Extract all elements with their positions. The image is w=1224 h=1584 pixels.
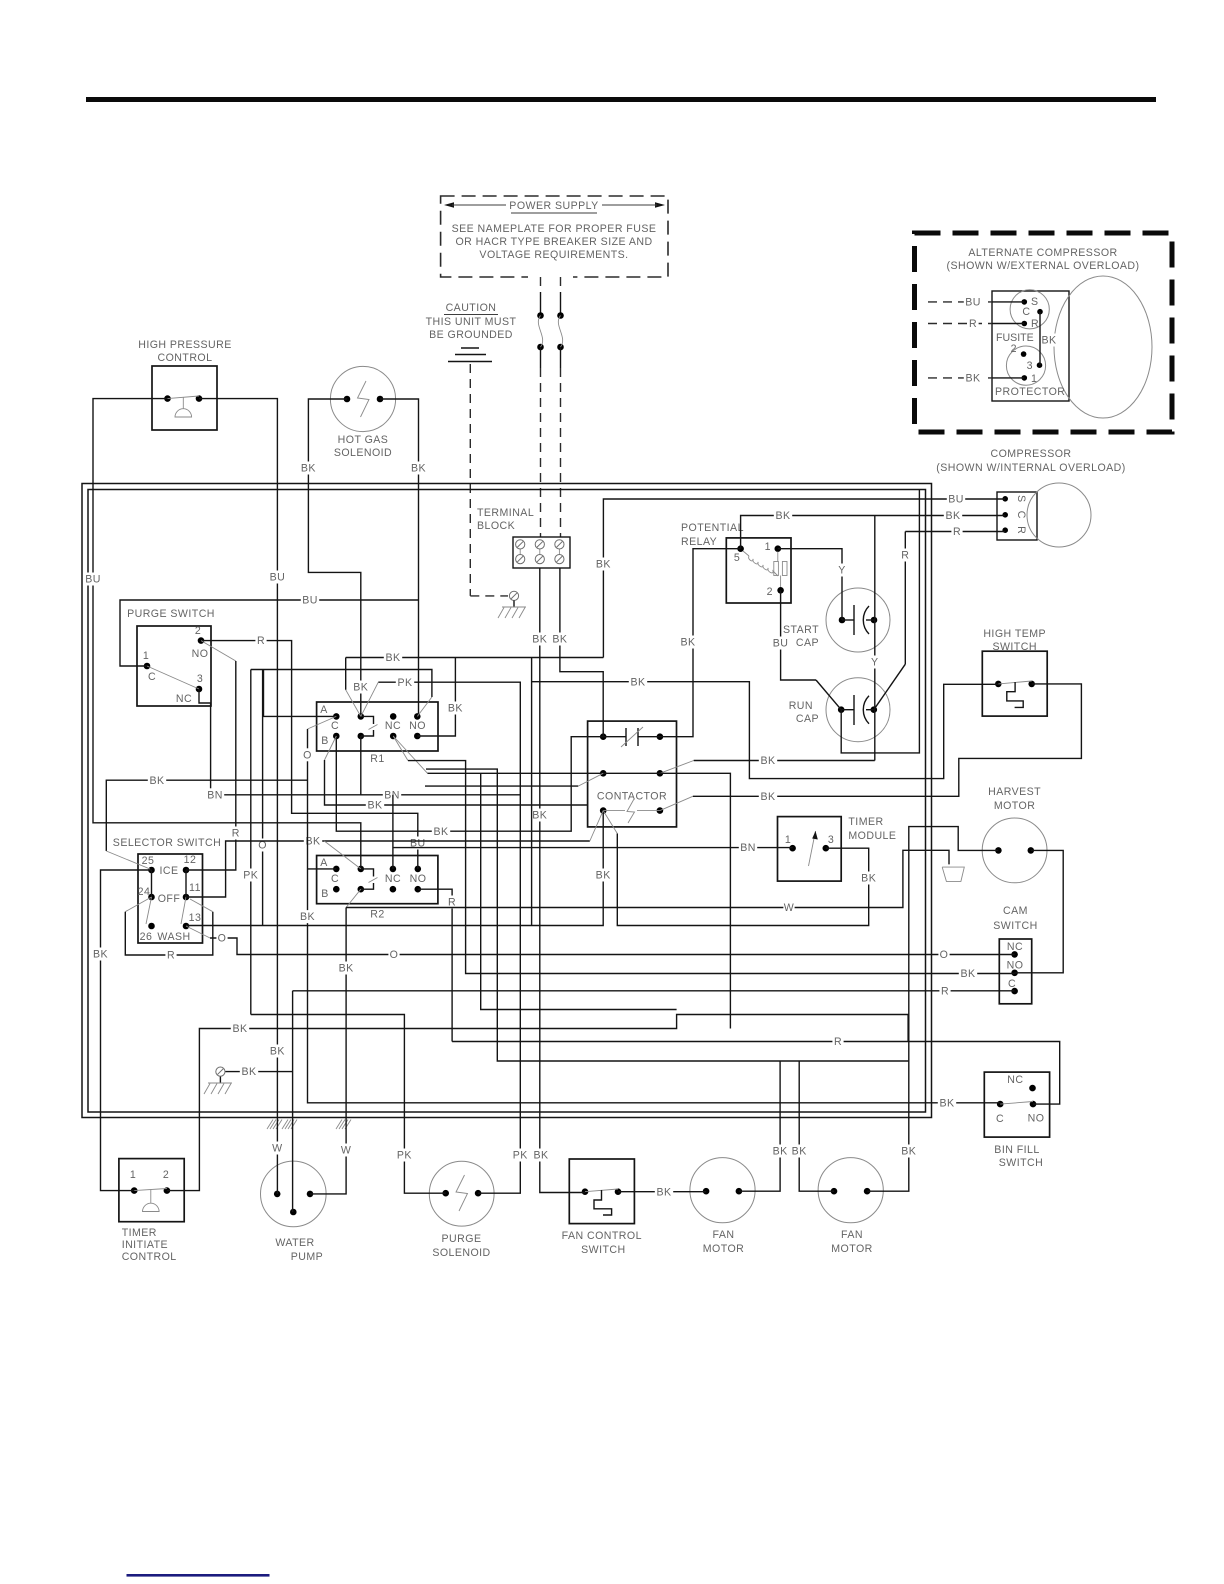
svg-text:BU: BU: [302, 595, 318, 607]
svg-text:THIS UNIT MUST: THIS UNIT MUST: [426, 316, 517, 328]
relay R2 box: [317, 856, 438, 904]
svg-text:RUN: RUN: [789, 700, 813, 712]
svg-text:BK: BK: [552, 634, 567, 646]
purge switch terminal 2 NO: [198, 637, 205, 644]
contactor coil row: [600, 807, 607, 814]
wire ground screw to water pump center: [216, 1067, 225, 1076]
svg-text:SEE NAMEPLATE FOR PROPER F: SEE NAMEPLATE FOR PROPER FUSE: [452, 223, 657, 235]
power supply lead L2 wire: [560, 277, 562, 292]
svg-text:BK: BK: [270, 1046, 285, 1058]
wire contactor line right to potential relay 5: [660, 549, 741, 737]
svg-text:SELECTOR SWITCH: SELECTOR SWITCH: [113, 837, 221, 849]
svg-text:MOTOR: MOTOR: [994, 800, 1036, 812]
svg-text:BK: BK: [433, 826, 448, 838]
svg-text:BK: BK: [533, 1150, 548, 1162]
svg-text:BK: BK: [93, 949, 108, 961]
svg-text:BK: BK: [232, 1023, 247, 1035]
water pump: [261, 1161, 327, 1227]
svg-text:CAUTION: CAUTION: [446, 302, 497, 314]
svg-text:R1: R1: [370, 753, 384, 765]
svg-text:BK: BK: [960, 968, 975, 980]
svg-text:BU: BU: [270, 572, 286, 584]
gap in power supply box bottom: [528, 270, 573, 283]
svg-text:SWITCH: SWITCH: [999, 1157, 1043, 1169]
svg-text:O: O: [940, 949, 949, 961]
svg-text:MOTOR: MOTOR: [703, 1243, 745, 1255]
svg-text:BK: BK: [939, 1097, 954, 1109]
selector switch box: [138, 854, 203, 943]
svg-text:2: 2: [767, 586, 773, 598]
protector terminal 2: [1021, 351, 1027, 357]
svg-text:NO: NO: [409, 720, 426, 732]
svg-text:C: C: [996, 1113, 1004, 1125]
svg-text:R: R: [257, 635, 265, 647]
fan control contacts: [582, 1188, 589, 1195]
wire potential relay 1 to start cap: [778, 549, 842, 620]
timer initiate contacts: [131, 1187, 138, 1194]
svg-text:NC: NC: [385, 720, 401, 732]
svg-text:A: A: [320, 857, 328, 869]
svg-text:PUMP: PUMP: [291, 1251, 323, 1263]
wire fan motor 2 left riser: [799, 1061, 834, 1191]
svg-text:R2: R2: [370, 909, 384, 921]
wire relay R1 NO bottom riser: [417, 658, 455, 737]
relay R2 terminal NC: [390, 866, 397, 873]
svg-text:FAN CONTROL: FAN CONTROL: [562, 1230, 642, 1242]
svg-text:24: 24: [138, 886, 151, 898]
wire fan motor 1 right riser: [739, 1061, 780, 1191]
svg-text:NC: NC: [176, 693, 192, 705]
potential relay terminal 2: [777, 587, 784, 594]
selector terminal 26: [148, 923, 155, 930]
relay R2 coil contact: [358, 866, 365, 873]
purge switch terminal 1 C: [144, 663, 151, 670]
wire contactor coil left branch diag: [603, 811, 617, 834]
wire hot gas solenoid right to relay R1 NO: [380, 399, 419, 716]
svg-text:Y: Y: [838, 565, 846, 577]
svg-text:WASH: WASH: [157, 931, 190, 943]
wire fan control right to fan motor 1: [618, 1191, 706, 1193]
svg-text:BLOCK: BLOCK: [477, 520, 515, 532]
svg-text:BK: BK: [241, 1066, 256, 1078]
svg-text:BK: BK: [596, 559, 611, 571]
chassis ground symbol: [513, 601, 515, 608]
svg-text:BK: BK: [792, 1146, 807, 1158]
alternate compressor BK lead: [928, 377, 992, 379]
wire timer initiate 2 BK run: [167, 1015, 908, 1191]
water funnel symbol: [942, 867, 964, 881]
svg-text:(SHOWN W/EXTERNAL OVERLOAD): (SHOWN W/EXTERNAL OVERLOAD): [946, 260, 1139, 272]
svg-text:C: C: [148, 671, 156, 683]
svg-text:11: 11: [189, 882, 201, 894]
svg-text:2: 2: [195, 625, 201, 637]
svg-text:PURGE: PURGE: [442, 1233, 482, 1245]
fuse disconnect L2: [557, 312, 564, 319]
svg-text:BK: BK: [301, 463, 316, 475]
svg-text:SWITCH: SWITCH: [993, 920, 1037, 932]
timer module box: [778, 817, 842, 882]
terminal block body: [513, 537, 570, 568]
svg-text:BN: BN: [207, 789, 223, 801]
compressor terminal S: [1002, 496, 1008, 502]
timer module terminal 3: [823, 845, 830, 852]
svg-text:BK: BK: [630, 676, 645, 688]
wire timer module 3 to contactor coil via BK: [617, 834, 868, 926]
svg-text:B: B: [321, 735, 329, 747]
wire purge switch 2 to selector 12: [201, 641, 236, 661]
svg-text:R: R: [969, 318, 977, 330]
svg-text:CAP: CAP: [796, 713, 819, 725]
wire purge switch 1 BU run: [120, 600, 419, 666]
svg-text:BK: BK: [773, 1146, 788, 1158]
wire purge switch 2 R to relay R2 NO: [201, 641, 418, 869]
control box border: [82, 484, 932, 1118]
bin fill terminal C: [997, 1101, 1004, 1108]
timer module arrow: [809, 831, 816, 866]
wire R run from water pump center to cam switch C: [293, 990, 1015, 992]
wire selector 13 to contactor coil riser: [186, 811, 603, 926]
wire high temp right to contactor coil right: [693, 684, 1082, 796]
svg-text:S: S: [1031, 296, 1039, 308]
compressor terminal C: [1002, 512, 1008, 518]
svg-text:R: R: [953, 526, 961, 538]
grommet chevrons at border bottom: [267, 1120, 273, 1130]
svg-text:BK: BK: [300, 911, 315, 923]
wire contactor main left tap: [578, 773, 603, 786]
svg-text:BIN FILL: BIN FILL: [994, 1144, 1039, 1156]
fan control switch box: [569, 1159, 634, 1224]
svg-text:BU: BU: [85, 574, 101, 586]
wire O riser: [262, 670, 264, 926]
relay R2 terminal NO: [415, 866, 422, 873]
svg-text:O: O: [390, 949, 399, 961]
svg-text:13: 13: [189, 912, 202, 924]
wire relay R1 A to A-line: [264, 670, 337, 717]
fan control bimetal: [594, 1190, 612, 1215]
terminal block screws: [519, 548, 521, 556]
fuse disconnect L1: [537, 312, 544, 319]
wire riser from contactor main feed to lower bus: [481, 773, 677, 1009]
ground screw terminal: [509, 591, 518, 600]
relay R2 terminal A: [333, 866, 340, 873]
svg-text:R: R: [834, 1036, 842, 1048]
svg-text:C: C: [1015, 511, 1027, 519]
svg-text:PK: PK: [397, 677, 412, 689]
fusite terminal S: [1022, 299, 1028, 305]
svg-text:WATER: WATER: [275, 1237, 314, 1249]
svg-text:1: 1: [130, 1169, 136, 1181]
svg-text:R: R: [941, 985, 949, 997]
wire high pressure control to BU riser: [93, 399, 361, 869]
selector pole links: [151, 870, 153, 897]
wire relay R2 coil bottom to W bus: [346, 889, 361, 907]
protector circle: [1006, 346, 1045, 385]
svg-text:25: 25: [142, 855, 155, 867]
svg-text:BK: BK: [411, 463, 426, 475]
svg-text:BN: BN: [740, 842, 756, 854]
svg-text:HOT GAS: HOT GAS: [338, 434, 389, 446]
potential relay box: [726, 538, 791, 603]
purge switch terminal 3 NC: [196, 686, 203, 693]
high temp switch bimetal: [1007, 682, 1023, 707]
potential relay terminal 1: [775, 545, 782, 552]
svg-text:BN: BN: [384, 789, 400, 801]
svg-text:R: R: [232, 828, 240, 840]
svg-text:SOLENOID: SOLENOID: [432, 1247, 490, 1259]
fan motor 2: [818, 1158, 883, 1223]
contactor box: [588, 721, 677, 827]
svg-text:MOTOR: MOTOR: [831, 1243, 873, 1255]
svg-text:OR HACR TYPE BREAKER SIZE: OR HACR TYPE BREAKER SIZE AND: [455, 236, 652, 248]
svg-text:BK: BK: [760, 755, 775, 767]
wire potential relay 5 to compressor C: [741, 516, 1006, 549]
alternate compressor BU lead: [928, 301, 992, 303]
svg-text:1: 1: [785, 834, 791, 846]
svg-text:PURGE SWITCH: PURGE SWITCH: [127, 608, 215, 620]
svg-text:CONTROL: CONTROL: [122, 1251, 177, 1263]
power supply lead L1 wire: [540, 277, 542, 292]
svg-text:PK: PK: [397, 1150, 412, 1162]
svg-text:HIGH TEMP: HIGH TEMP: [983, 628, 1046, 640]
svg-text:12: 12: [184, 854, 197, 866]
svg-text:PK: PK: [243, 870, 258, 882]
wire riser to lower BK bus: [426, 769, 909, 1061]
svg-text:COMPRESSOR: COMPRESSOR: [990, 448, 1071, 460]
wire purge solenoid right PK riser to relay R1 coil: [378, 682, 520, 1193]
run cap: [826, 678, 890, 742]
purge switch box: [137, 626, 211, 706]
wire selector 25 to timer initiate 1: [101, 870, 152, 1191]
wire BK branch to selector 25: [106, 780, 307, 851]
svg-text:CONTROL: CONTROL: [158, 352, 213, 364]
selector terminal 24: [148, 894, 155, 901]
relay R1 terminal NC: [390, 713, 397, 720]
svg-text:5: 5: [734, 552, 740, 564]
fan motor 1: [690, 1158, 755, 1223]
wire contactor main right to run cap right: [660, 761, 694, 774]
svg-text:1: 1: [765, 541, 771, 553]
wire terminal block mid to fan control: [540, 568, 585, 1193]
svg-text:BK: BK: [532, 634, 547, 646]
relay R2 terminal B: [333, 886, 340, 893]
potential relay contacts: [777, 552, 779, 562]
compressor body: [997, 492, 1037, 540]
wire relay R1 NC to cam switch NO: [393, 736, 408, 761]
svg-text:HARVEST: HARVEST: [988, 786, 1041, 798]
svg-text:POWER SUPPLY: POWER SUPPLY: [509, 200, 598, 212]
svg-text:(SHOWN W/INTERNAL OVERLOAD): (SHOWN W/INTERNAL OVERLOAD): [936, 462, 1126, 474]
high pressure control contacts: [164, 395, 171, 402]
wire run cap left return: [841, 490, 919, 753]
svg-text:POTENTIAL: POTENTIAL: [681, 522, 744, 534]
svg-text:O: O: [303, 749, 312, 761]
svg-text:A: A: [320, 704, 328, 716]
protector terminal 1: [1022, 375, 1028, 381]
svg-text:BK: BK: [1041, 335, 1056, 347]
svg-text:R: R: [1031, 318, 1039, 330]
svg-text:SOLENOID: SOLENOID: [334, 447, 392, 459]
wire contactor main left feed: [393, 736, 427, 773]
svg-text:BU: BU: [773, 638, 789, 650]
svg-text:CAP: CAP: [796, 637, 819, 649]
svg-text:BK: BK: [760, 791, 775, 803]
wire high pressure control right to water pump left: [199, 399, 277, 1194]
svg-text:INITIATE: INITIATE: [122, 1239, 168, 1251]
wire caps right leg: [874, 516, 876, 710]
contactor main contact row: [600, 770, 607, 777]
svg-text:NO: NO: [1028, 1113, 1045, 1125]
wire purge switch 3 BN run: [199, 689, 520, 795]
earth ground symbol: [461, 347, 479, 349]
svg-text:BU: BU: [965, 297, 981, 309]
svg-text:W: W: [341, 1145, 351, 1157]
svg-text:BK: BK: [385, 652, 400, 664]
selector terminal 13: [183, 923, 190, 930]
svg-text:BE GROUNDED: BE GROUNDED: [429, 329, 513, 341]
timer module terminal 1: [789, 845, 796, 852]
svg-text:BK: BK: [680, 637, 695, 649]
alternate compressor R lead: [928, 323, 992, 325]
hot gas solenoid: [330, 366, 395, 431]
svg-text:W: W: [784, 902, 794, 914]
wire BK compressor BU lead: [603, 499, 1005, 658]
power supply dashed box: [441, 196, 668, 277]
svg-text:START: START: [783, 624, 819, 636]
page top rule: [86, 97, 1156, 102]
svg-text:OFF: OFF: [158, 893, 181, 905]
svg-text:TIMER: TIMER: [848, 816, 883, 828]
svg-text:BK: BK: [901, 1146, 916, 1158]
wire harvest motor right to cam switch NO: [1015, 850, 1064, 972]
wire selector R loop: [125, 897, 151, 912]
svg-text:BK: BK: [448, 703, 463, 715]
alternate compressor dashed enclosure: [915, 233, 1173, 432]
harvest motor: [982, 818, 1047, 883]
relay R1 terminal A: [333, 713, 340, 720]
wire selector 11 BK to relay R2 coil: [186, 841, 590, 897]
power supply arrows: [444, 202, 454, 208]
svg-text:1: 1: [1031, 373, 1037, 385]
svg-text:ICE: ICE: [159, 865, 178, 877]
svg-text:BK: BK: [656, 1186, 671, 1198]
wire relay R1 A orange tap to trunk: [308, 716, 337, 729]
wire trunk O/BK to bin fill C: [308, 868, 337, 870]
high temp switch box: [982, 651, 1047, 716]
page footer rule: [127, 1574, 270, 1577]
wire BN branch to timer module 1: [392, 795, 394, 869]
svg-text:TIMER: TIMER: [122, 1227, 157, 1239]
wire water pump right W riser: [310, 908, 346, 1194]
svg-text:NC: NC: [1007, 1074, 1023, 1086]
wire terminal block right to contactor line: [560, 568, 603, 737]
svg-text:O: O: [218, 933, 227, 945]
svg-text:R: R: [1015, 526, 1027, 534]
svg-text:ALTERNATE COMPRESSOR: ALTERNATE COMPRESSOR: [968, 247, 1117, 259]
chassis ground below screw: [219, 1077, 221, 1083]
wire compressor R lead: [905, 531, 1005, 533]
svg-text:NO: NO: [410, 873, 427, 885]
svg-text:BK: BK: [353, 682, 368, 694]
svg-text:3: 3: [197, 673, 203, 685]
relay R1 terminal B: [333, 733, 340, 740]
wire R run to bin fill NO: [452, 1042, 1060, 1105]
protector terminal 3: [1037, 362, 1043, 368]
svg-text:NO: NO: [192, 648, 209, 660]
svg-text:C: C: [331, 873, 339, 885]
wire W bus to funnel: [346, 850, 949, 907]
svg-text:TERMINAL: TERMINAL: [477, 507, 534, 519]
svg-text:W: W: [272, 1143, 282, 1155]
svg-text:FAN: FAN: [841, 1229, 863, 1241]
svg-text:VOLTAGE REQUIREMENTS.: VOLTAGE REQUIREMENTS.: [479, 249, 628, 261]
svg-text:BK: BK: [965, 373, 980, 385]
wire relay R1 B to contactor line side: [336, 736, 603, 831]
relay R1 coil contact: [358, 713, 365, 720]
svg-text:R: R: [901, 550, 909, 562]
selector terminal 12: [183, 867, 190, 874]
fusite terminal R: [1022, 321, 1028, 327]
purge switch arm: [147, 666, 199, 689]
svg-text:NC: NC: [385, 873, 401, 885]
wire R drop to run cap: [904, 532, 906, 665]
svg-text:BK: BK: [861, 873, 876, 885]
svg-text:1: 1: [143, 650, 149, 662]
svg-text:C: C: [1022, 306, 1030, 318]
wire contactor main right drop: [660, 773, 731, 1028]
relay R1 terminal NO: [414, 713, 421, 720]
wire BK bus upper: [346, 657, 604, 659]
bin fill terminal NO: [1030, 1101, 1037, 1108]
selector switch arms: [146, 897, 152, 924]
svg-text:R: R: [167, 950, 175, 962]
bin fill switch box: [984, 1072, 1049, 1137]
svg-text:PK: PK: [513, 1150, 528, 1162]
compressor terminal R: [1002, 527, 1008, 533]
svg-text:C: C: [331, 720, 339, 732]
svg-text:26: 26: [140, 931, 153, 943]
wire purge solenoid left PK riser: [251, 1015, 446, 1194]
wire relay R1 B lower tap: [325, 736, 337, 760]
svg-text:B: B: [321, 888, 329, 900]
wire relay R2 NO lower R drop: [418, 889, 452, 1041]
svg-text:BK: BK: [339, 963, 354, 975]
alternate compressor body: [992, 291, 1069, 401]
svg-text:2: 2: [163, 1169, 169, 1181]
purge solenoid: [429, 1161, 494, 1226]
svg-text:S: S: [1015, 495, 1027, 503]
potential relay terminal 5: [737, 545, 744, 552]
high pressure control box: [152, 366, 217, 430]
svg-text:BK: BK: [775, 510, 790, 522]
svg-text:PROTECTOR: PROTECTOR: [995, 386, 1065, 398]
svg-text:Y: Y: [871, 657, 879, 669]
relay R1 box: [317, 702, 438, 751]
wire BK bus to relay R1 coil top: [345, 658, 347, 690]
selector terminal 25: [148, 867, 155, 874]
svg-text:3: 3: [828, 834, 834, 846]
wire potential relay 2 to run cap: [781, 590, 816, 680]
wire BK bus to high temp switch: [531, 658, 533, 926]
timer initiate control box: [119, 1159, 184, 1222]
svg-text:RELAY: RELAY: [681, 536, 717, 548]
svg-text:BK: BK: [149, 775, 164, 787]
svg-text:MODULE: MODULE: [848, 830, 896, 842]
svg-text:BU: BU: [948, 494, 964, 506]
wire selector 13 orange run to cam switch NC: [186, 926, 210, 938]
ground dashed wire to terminal block area: [469, 364, 471, 596]
svg-text:3: 3: [1027, 360, 1033, 372]
wire C to 3 internal BK: [1039, 312, 1041, 366]
